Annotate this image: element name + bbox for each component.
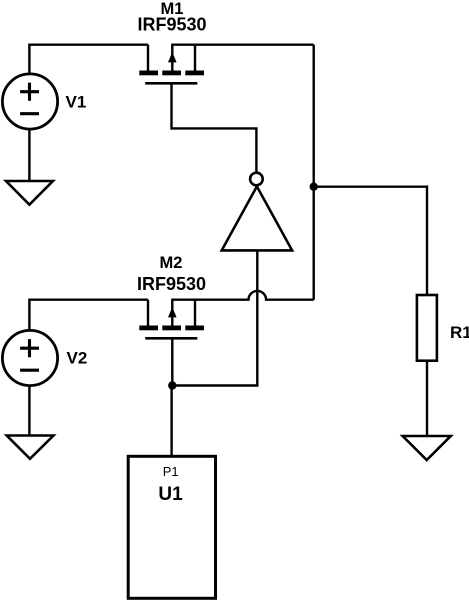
voltage source V2 (2, 330, 57, 385)
svg-text:IRF9530: IRF9530 (137, 274, 206, 294)
svg-text:U1: U1 (158, 484, 183, 505)
transistor M2 IRF9530 (139, 300, 204, 339)
wire M2 gate to node (171, 339, 173, 385)
svg-text:IRF9530: IRF9530 (137, 15, 206, 35)
voltage source V1 (2, 74, 57, 129)
IC U1 box (128, 456, 215, 598)
wire M1 gate to inverter output (172, 84, 257, 171)
wire M2 right to right bus with hop over inverter input (171, 291, 314, 300)
wire right bus vertical (313, 45, 315, 300)
transistor M1 IRF9530 (139, 45, 204, 84)
wire node to R1 (314, 187, 427, 295)
resistor R1 (417, 295, 437, 361)
svg-text:M2: M2 (160, 254, 183, 272)
svg-text:P1: P1 (163, 464, 179, 479)
wire M1 source/right to right bus (171, 44, 314, 46)
svg-text:V2: V2 (67, 348, 88, 367)
wire V1 bottom to ground (28, 130, 30, 180)
inverter (NOT gate) (222, 173, 292, 251)
wire V1 top to M1 drain (29, 45, 148, 74)
wire node to U1 pin (170, 386, 172, 457)
svg-text:R1: R1 (450, 323, 469, 342)
node junction dot (M2 gate node) (168, 381, 176, 389)
ground (below V2) (7, 436, 54, 459)
wire V2 top to M2 (29, 300, 148, 330)
node junction dot (right bus / R1 branch) (310, 183, 318, 191)
svg-text:V1: V1 (66, 92, 87, 111)
wire R1 bottom to ground (426, 361, 428, 435)
ground (below V1) (6, 181, 53, 205)
ground (below R1) (403, 436, 451, 460)
wire V2 bottom to ground (28, 386, 30, 435)
wire inverter input down (crosses M2 wire with hop) (172, 250, 257, 385)
